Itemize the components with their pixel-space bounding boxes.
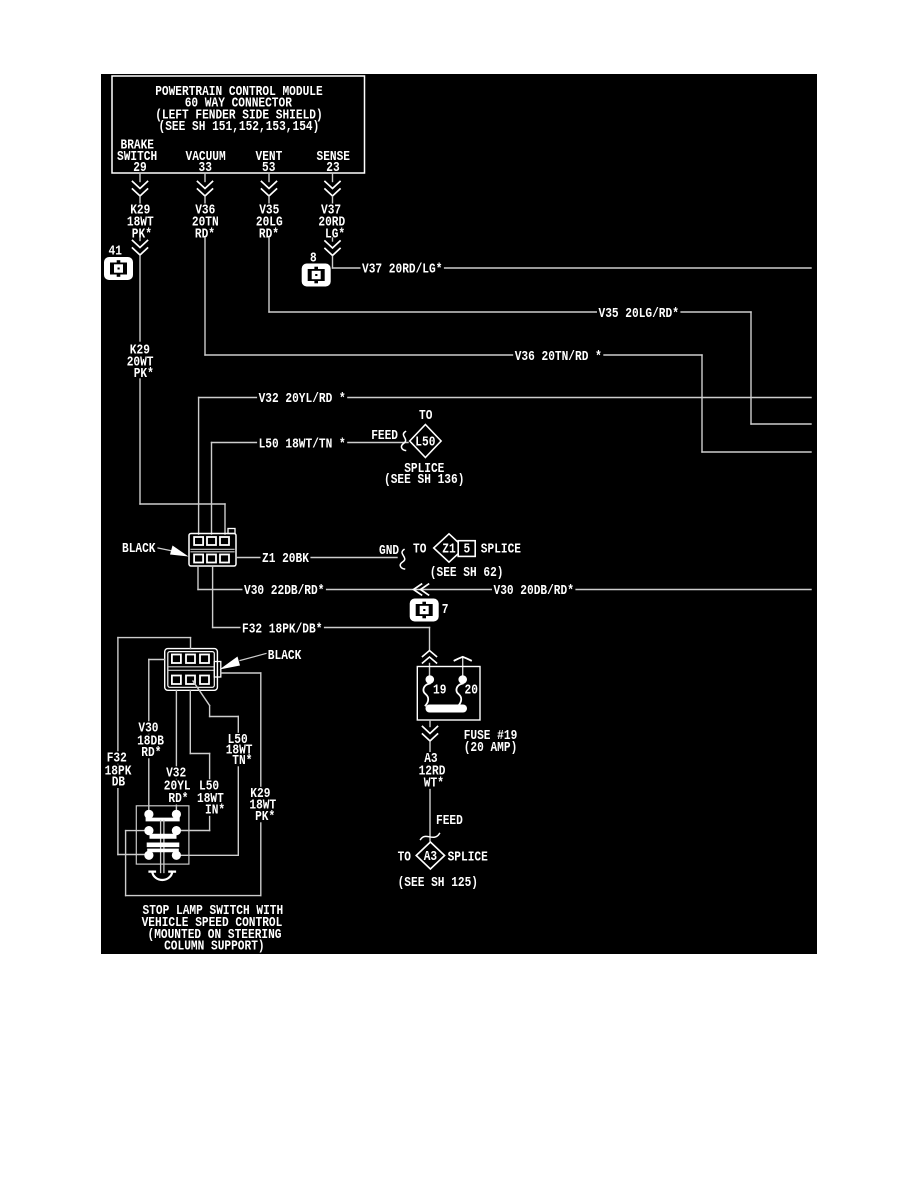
wire V37 [332, 238, 334, 241]
svg-text:V36 20TN/RD *: V36 20TN/RD * [515, 349, 602, 365]
label V30 20DB/RD* [492, 584, 575, 597]
label V32 20YL RD* [165, 766, 188, 779]
svg-text:TO: TO [398, 850, 411, 866]
wire L50 up [211, 443, 213, 535]
label V36 20TN/RD* [513, 350, 603, 363]
label A3 12RD WT* [423, 752, 439, 765]
wire K29 corner [140, 503, 225, 505]
splice box 5 [458, 541, 475, 557]
squiggle at A3 splice [421, 834, 440, 840]
switch top staple contact [148, 814, 178, 819]
label L50 18WT IN* [198, 779, 221, 792]
svg-text:(SEE SH 62): (SEE SH 62) [430, 565, 504, 581]
connector C1 BLACK 6-way [189, 534, 236, 567]
svg-text:FEED: FEED [436, 813, 463, 829]
wire V36 down [204, 238, 206, 355]
splice symbol A3 [416, 842, 444, 869]
wire V35 down [268, 238, 270, 312]
disconnect below pin 23 [325, 182, 340, 189]
svg-text:F32 18PK/DB*: F32 18PK/DB* [242, 622, 322, 638]
svg-text:SPLICE: SPLICE [481, 542, 521, 558]
wire F32 from C1 [212, 566, 214, 628]
wire pin 29 [139, 173, 141, 182]
fuse pin 20 [458, 675, 467, 684]
connector icon 41 [104, 257, 133, 280]
fuse element curl 20 [456, 684, 462, 706]
disconnect below pin 53 [262, 182, 277, 189]
disconnect below pin 29 [133, 182, 148, 189]
label Z1 20BK [261, 552, 311, 565]
arrow BLACK C1 [158, 548, 175, 552]
wire L50 outer to switch [193, 681, 210, 706]
wire pin 23 [332, 173, 334, 182]
svg-text:V37 20RD/LG*: V37 20RD/LG* [362, 262, 442, 278]
wire K29 to switch [221, 672, 261, 674]
fuse F19 box [417, 667, 480, 721]
label 8 [309, 252, 319, 265]
svg-text:(20 AMP): (20 AMP) [464, 740, 518, 756]
connector icon 7 [410, 599, 439, 622]
svg-text:SPLICE: SPLICE [448, 850, 488, 866]
fuse pin 19 [426, 675, 435, 684]
wire V36 down right [701, 355, 703, 452]
svg-text:RD*: RD* [168, 791, 188, 807]
wire F32 horizontal [213, 627, 430, 629]
fuse element curl 19 [423, 684, 429, 706]
wire K29 down [139, 256, 141, 341]
wire V36 to edge [702, 451, 811, 453]
svg-text:FEED: FEED [371, 428, 398, 444]
wire V36 horizontal [205, 354, 702, 356]
splice symbol L50 [410, 425, 441, 458]
svg-text:V32 20YL/RD *: V32 20YL/RD * [259, 391, 346, 407]
svg-text:WT*: WT* [424, 775, 444, 791]
svg-text:(SEE SH 151,152,153,154): (SEE SH 151,152,153,154) [159, 119, 320, 135]
label K29 18WT PK* [129, 204, 152, 217]
wire K29 [139, 238, 141, 241]
svg-text:DB: DB [112, 775, 126, 791]
label BLACK C2 [266, 649, 303, 662]
label 41 [107, 245, 123, 258]
brace squiggle FEED [401, 432, 405, 451]
PCM connector box U1 [112, 76, 365, 173]
label V35 20LG/RD* [597, 307, 680, 320]
svg-text:7: 7 [442, 602, 449, 618]
inline disconnect << on V30 [421, 584, 429, 595]
label V35 20LG RD* [258, 204, 281, 217]
svg-text:COLUMN SUPPORT): COLUMN SUPPORT) [164, 939, 265, 955]
label K29 20WT PK* [128, 344, 151, 357]
svg-text:TN*: TN* [232, 753, 252, 769]
wire V37 to edge [333, 267, 812, 269]
label FEED [370, 429, 400, 442]
svg-text:Z1: Z1 [442, 542, 455, 558]
wire A3 from fuse [429, 720, 431, 727]
label F32 18PK/DB* [241, 623, 324, 636]
label V30 22DB/RD* [243, 584, 326, 597]
svg-text:(SEE SH 125): (SEE SH 125) [398, 875, 478, 891]
disconnect 8 on V37 [325, 241, 340, 248]
label BLACK C1 [121, 542, 158, 555]
svg-text:PK*: PK* [255, 809, 275, 825]
label K29 18WT PK* (switch) [249, 787, 272, 800]
brace squiggle GND [400, 550, 405, 570]
switch plunger shaft [160, 821, 162, 873]
svg-text:IN*: IN* [205, 802, 225, 818]
switch plunger cup [150, 872, 176, 880]
arrow BLACK C2 [240, 654, 266, 661]
wire V35 down right [750, 312, 752, 424]
disconnect below fuse [423, 727, 438, 734]
wire into fuse pin 19 [429, 664, 431, 676]
svg-text:V35 20LG/RD*: V35 20LG/RD* [599, 306, 679, 322]
wire L50 inner to switch [189, 690, 191, 753]
switch middle contact bar [152, 834, 174, 839]
label 7 [440, 603, 450, 616]
label F32 18PK DB [105, 751, 128, 764]
wire pin 33 [204, 173, 206, 182]
wire pin 53 [268, 173, 270, 182]
wire F32 down to fuse [429, 628, 431, 651]
wire V30 to switch [149, 659, 165, 661]
fuse element bar [430, 705, 464, 713]
label L50 18WT TN* [226, 733, 249, 746]
svg-text:TO: TO [413, 542, 426, 558]
wire A3 down [429, 742, 431, 841]
wire K29 down 2 [139, 379, 141, 504]
label FEED (A3) [435, 814, 465, 827]
svg-text:(SEE SH 136): (SEE SH 136) [384, 472, 464, 488]
svg-text:RD*: RD* [141, 745, 161, 761]
label V37 20RD/LG* [361, 263, 444, 276]
svg-text:GND: GND [379, 543, 399, 559]
svg-text:PK*: PK* [132, 226, 152, 242]
wire Z1 20BK [236, 557, 397, 559]
svg-text:A3: A3 [424, 849, 437, 865]
wire V32 up [198, 398, 200, 535]
wire V37 stub [332, 257, 334, 269]
svg-text:BLACK: BLACK [122, 541, 156, 557]
svg-text:PK*: PK* [134, 366, 154, 382]
label L50 18WT/TN* [257, 437, 347, 450]
wire V32 to switch [175, 690, 177, 811]
wire K29 to connector [224, 504, 226, 534]
wire V32 to edge [199, 397, 811, 399]
switch pins [144, 810, 153, 819]
wire V35 horizontal [269, 311, 751, 313]
splice symbol Z1 [434, 534, 465, 562]
disconnect below pin 33 [198, 182, 213, 189]
wire V35 to edge [751, 423, 811, 425]
wire L50 horizontal [212, 442, 409, 444]
svg-text:V30 20DB/RD*: V30 20DB/RD* [494, 583, 574, 599]
label V30 18DB RD* [137, 721, 160, 734]
black schematic panel [101, 74, 817, 954]
switch lower contact bars [149, 842, 177, 847]
disconnect above fuse pin 19 [423, 651, 437, 657]
stop lamp switch S1 body [136, 806, 189, 864]
svg-text:TO: TO [419, 408, 432, 424]
svg-text:L50 18WT/TN *: L50 18WT/TN * [259, 436, 346, 452]
label V32 20YL/RD* [257, 392, 347, 405]
half disconnect above fuse pin 20 [462, 657, 464, 676]
svg-text:BLACK: BLACK [268, 648, 302, 664]
label V36 20TN RD* [194, 204, 217, 217]
svg-text:L50: L50 [415, 435, 435, 451]
svg-text:19: 19 [433, 683, 446, 699]
connector icon 8 [302, 264, 331, 287]
svg-text:LG*: LG* [325, 226, 345, 242]
disconnect 41 on K29 [133, 241, 148, 248]
connector C2 BLACK 6-way [165, 649, 218, 691]
wire V30 from C1 [197, 566, 199, 590]
svg-text:20: 20 [465, 683, 478, 699]
wire F32 to switch [190, 638, 192, 649]
svg-text:5: 5 [464, 542, 471, 558]
svg-text:Z1 20BK: Z1 20BK [262, 551, 309, 567]
label V37 20RD LG* [320, 204, 343, 217]
wire V30 to edge [198, 589, 811, 591]
svg-text:V30 22DB/RD*: V30 22DB/RD* [244, 583, 324, 599]
